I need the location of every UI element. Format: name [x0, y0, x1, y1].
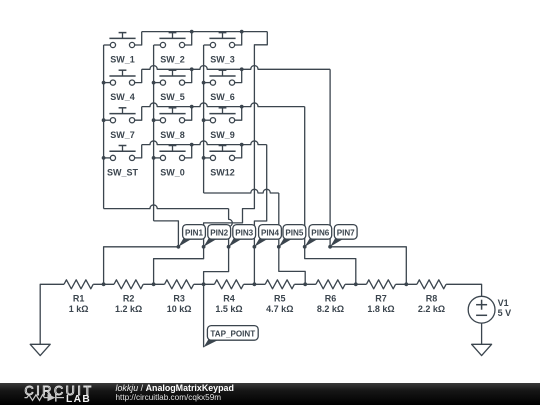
- wire SW_4 left terminal: [104, 82, 111, 84]
- node PIN3 flag: [229, 225, 256, 247]
- pushbutton switch SW_7: [109, 108, 135, 140]
- wire row2 net horizontal: [142, 66, 330, 70]
- wire column3 bus: [203, 45, 205, 193]
- pushbutton switch SW_5: [159, 70, 185, 102]
- wire SW_6 left terminal: [204, 82, 211, 84]
- wire row3 net horizontal: [142, 103, 305, 107]
- wire PIN5 to J5: [279, 247, 305, 284]
- svg-text:SW12: SW12: [210, 168, 235, 178]
- wire column1 link to PIN3: [104, 205, 229, 209]
- wire row4 net descender to PIN4: [254, 145, 266, 247]
- wire PIN2 to J2: [154, 247, 204, 284]
- svg-text:5 V: 5 V: [498, 308, 512, 318]
- wire PIN3 to J3: [204, 247, 229, 284]
- wire SW_5 right terminal jog: [185, 69, 192, 82]
- wire PIN7 to J7: [330, 247, 406, 284]
- pushbutton switch SW_0: [159, 146, 185, 178]
- wire row1 net descender to PIN2: [204, 32, 268, 247]
- wire ladder segment J4: [244, 283, 266, 285]
- wire SW_8 left terminal: [154, 119, 161, 121]
- svg-text:2.2 kΩ: 2.2 kΩ: [418, 304, 445, 314]
- wire ladder segment J3: [194, 283, 215, 285]
- svg-text:PIN1: PIN1: [185, 228, 203, 237]
- svg-text:LAB: LAB: [66, 394, 91, 405]
- resistor R7: [366, 280, 395, 314]
- svg-text:SW_1: SW_1: [110, 55, 135, 65]
- svg-text:PIN4: PIN4: [261, 228, 279, 237]
- wire SW_3 left terminal: [204, 44, 211, 46]
- wire SW_2 left terminal: [154, 44, 161, 46]
- wire SW_7 right terminal jog: [135, 107, 142, 121]
- wire column1 descender to PIN3 (hops over PIN2 link): [229, 209, 233, 247]
- svg-text:PIN3: PIN3: [235, 228, 253, 237]
- wire SW_0 left terminal: [154, 157, 161, 159]
- svg-text:V1: V1: [498, 298, 509, 308]
- wire row2 net descender to PIN7: [329, 69, 331, 247]
- wire ladder right to V1: [446, 284, 482, 296]
- svg-text:SW_6: SW_6: [210, 92, 235, 102]
- node PIN6 flag: [305, 225, 332, 247]
- wire SW_0 right terminal jog: [185, 145, 192, 158]
- svg-text:R8: R8: [426, 294, 438, 304]
- pushbutton switch SW_2: [159, 33, 185, 65]
- footer credit text: [116, 383, 234, 402]
- node PIN2 flag: [204, 225, 231, 247]
- pushbutton switch SW_1: [109, 33, 135, 65]
- svg-text:PIN6: PIN6: [311, 228, 329, 237]
- resistor R8: [417, 280, 446, 314]
- svg-text:R7: R7: [375, 294, 387, 304]
- svg-text:SW_0: SW_0: [160, 168, 185, 178]
- pushbutton switch SW_8: [159, 108, 185, 140]
- svg-text:1.8 kΩ: 1.8 kΩ: [367, 304, 394, 314]
- ground (left, ladder): [30, 344, 50, 355]
- ground (right, under V1): [472, 344, 492, 355]
- svg-text:R1: R1: [73, 294, 85, 304]
- svg-text:http://circuitlab.com/cqkx59m: http://circuitlab.com/cqkx59m: [116, 393, 222, 402]
- wire SW_8 right terminal jog: [185, 107, 192, 121]
- wire SW_1 left terminal: [104, 44, 111, 46]
- pushbutton switch SW_4: [109, 70, 135, 102]
- wire V1 to ground: [481, 323, 483, 344]
- svg-text:lokkju / AnalogMatrixKeypad: lokkju / AnalogMatrixKeypad: [116, 383, 234, 393]
- svg-text:1.2 kΩ: 1.2 kΩ: [115, 304, 142, 314]
- svg-text:R5: R5: [274, 294, 286, 304]
- wire ladder segment J5: [294, 283, 316, 285]
- pushbutton switch SW_3: [209, 33, 235, 65]
- wire row4 net horizontal: [142, 141, 267, 145]
- svg-text:SW_5: SW_5: [160, 92, 185, 102]
- wire SW_6 right terminal jog: [235, 69, 242, 82]
- svg-text:SW_3: SW_3: [210, 55, 235, 65]
- wire SW_4 right terminal jog: [135, 69, 142, 82]
- wire PIN6 to J6: [305, 247, 356, 284]
- wire ladder segment J1: [93, 283, 114, 285]
- wire PIN1 to J1: [104, 247, 179, 284]
- node PIN5 flag: [279, 225, 306, 247]
- wire row1 net horizontal: [142, 31, 268, 33]
- svg-text:R6: R6: [325, 294, 337, 304]
- svg-text:1 kΩ: 1 kΩ: [69, 304, 89, 314]
- wire SW_7 left terminal: [104, 119, 111, 121]
- pushbutton switch SW_ST: [107, 146, 139, 178]
- wire column1 bus: [103, 45, 105, 209]
- wire PIN4 to J4: [253, 247, 255, 284]
- junction dots: column buses: [102, 81, 206, 160]
- svg-text:SW_9: SW_9: [210, 130, 235, 140]
- resistor R3: [165, 280, 194, 314]
- wire SW_ST right terminal jog: [135, 145, 142, 158]
- wire SW_5 left terminal: [154, 82, 161, 84]
- svg-text:SW_ST: SW_ST: [107, 168, 139, 178]
- pushbutton switch SW12: [209, 146, 235, 178]
- resistor R4: [214, 280, 243, 314]
- wire column2 link to PIN1: [154, 221, 179, 247]
- wire ladder segment J7: [396, 283, 417, 285]
- wire ladder segment J2: [143, 283, 164, 285]
- svg-text:PIN5: PIN5: [285, 228, 303, 237]
- wire row3 net descender to PIN6: [304, 107, 306, 247]
- node PIN1 flag: [178, 225, 205, 247]
- wire SW_ST left terminal: [104, 157, 111, 159]
- resistor R2: [114, 280, 143, 314]
- wire column2 bus: [153, 45, 155, 221]
- wire SW_1 right terminal jog: [135, 32, 142, 45]
- wire SW12 left terminal: [204, 157, 211, 159]
- wire ladder segment J6: [345, 283, 366, 285]
- node PIN7 flag: [330, 225, 357, 247]
- node TAP_POINT flag: [204, 326, 259, 348]
- svg-text:8.2 kΩ: 8.2 kΩ: [317, 304, 344, 314]
- pushbutton switch SW_9: [209, 108, 235, 140]
- voltage source V1 5V: [468, 296, 511, 323]
- svg-text:4.7 kΩ: 4.7 kΩ: [266, 304, 293, 314]
- wire column3 link to PIN5: [204, 189, 279, 193]
- junction dots: row net jogs: [190, 30, 244, 147]
- wire SW_9 right terminal jog: [235, 107, 242, 121]
- svg-text:R4: R4: [223, 294, 235, 304]
- svg-text:SW_2: SW_2: [160, 55, 185, 65]
- CircuitLab logo: [25, 384, 94, 405]
- svg-text:SW_4: SW_4: [110, 92, 135, 102]
- svg-text:PIN7: PIN7: [337, 228, 355, 237]
- svg-text:TAP_POINT: TAP_POINT: [210, 329, 255, 338]
- resistor R1: [64, 280, 93, 314]
- node PIN4 flag: [254, 225, 281, 247]
- wire ladder left to ground: [40, 284, 64, 344]
- svg-text:SW_7: SW_7: [110, 130, 135, 140]
- wire SW_2 right terminal jog: [185, 32, 192, 45]
- svg-text:R2: R2: [123, 294, 135, 304]
- svg-text:1.5 kΩ: 1.5 kΩ: [215, 304, 242, 314]
- wire SW_3 right terminal jog: [235, 32, 242, 45]
- resistor R5: [265, 280, 294, 314]
- svg-text:10 kΩ: 10 kΩ: [167, 304, 192, 314]
- wire SW_9 left terminal: [204, 119, 211, 121]
- wire TAP_POINT stub from J3: [203, 284, 205, 347]
- resistor R6: [316, 280, 345, 314]
- junction dots: ladder taps J1..J7: [102, 282, 409, 286]
- svg-text:SW_8: SW_8: [160, 130, 185, 140]
- wire SW12 right terminal jog: [235, 145, 242, 158]
- pushbutton switch SW_6: [209, 70, 235, 102]
- svg-text:PIN2: PIN2: [210, 228, 228, 237]
- svg-text:R3: R3: [173, 294, 185, 304]
- junction dots: PIN pointer nodes: [177, 245, 333, 249]
